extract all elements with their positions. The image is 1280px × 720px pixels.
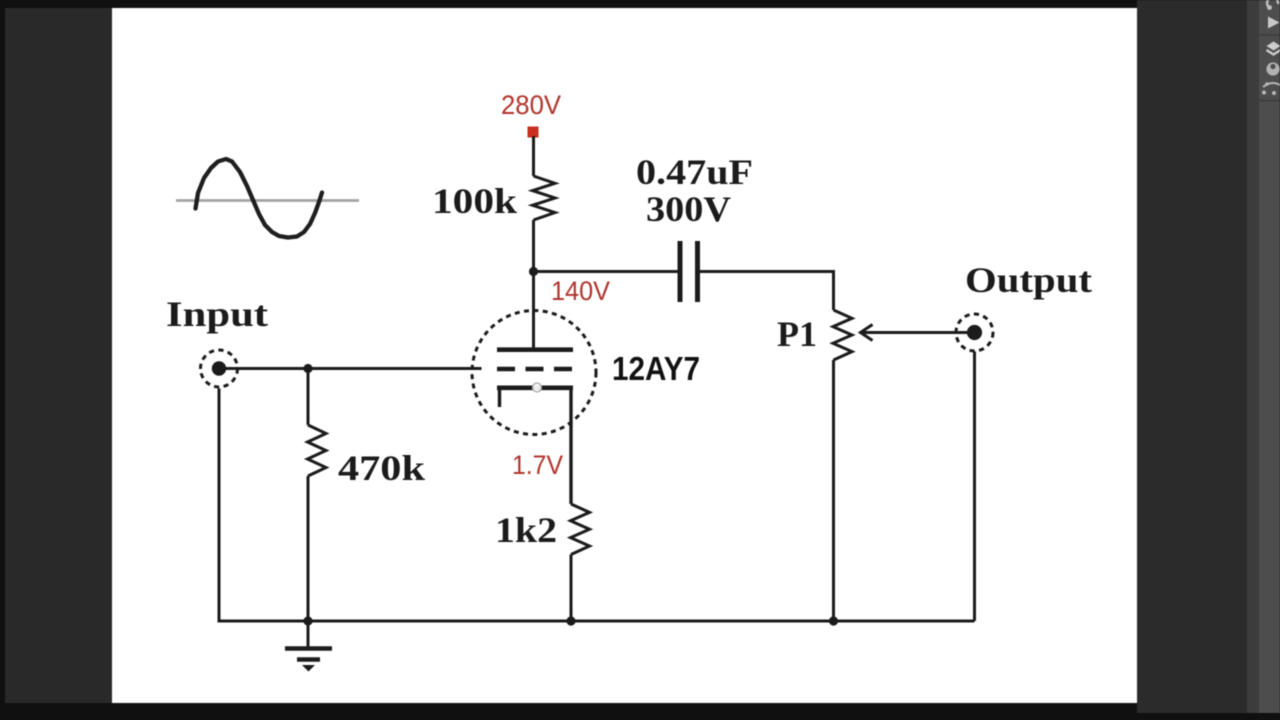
wire J1 to grid (226, 367, 482, 370)
tube V1 cathode lead (569, 388, 572, 504)
toolbar icon mask top (1267, 0, 1278, 10)
tube V1 cathode left leg (498, 388, 501, 407)
sine reference gray line (176, 199, 359, 202)
tube V1 grid dashes (497, 367, 573, 372)
wire P1 bottom to rail (832, 360, 835, 621)
wire node to R2 (307, 369, 310, 426)
cursor ring artifact (533, 383, 542, 392)
Input jack J1 dashed ring (201, 350, 238, 387)
svg-text:12AY7: 12AY7 (612, 350, 700, 387)
toolbar icon play (1268, 17, 1280, 29)
svg-text:1k2: 1k2 (495, 510, 557, 550)
junction node R3/rail (566, 616, 575, 625)
junction node rail/ground (303, 616, 312, 625)
white schematic canvas (112, 8, 1137, 703)
wire C1 to P1 top (700, 272, 834, 311)
potentiometer P1 zigzag (833, 310, 852, 360)
junction node plate (529, 267, 538, 276)
left app panel (5, 8, 112, 703)
toolbar icon sphere (1266, 62, 1279, 75)
resistor R3 1k2 zigzag (571, 504, 590, 555)
svg-text:280V: 280V (501, 90, 561, 120)
tube V1 plate bar (497, 347, 573, 352)
resistor R1 100k zigzag (533, 176, 556, 220)
toolbar separator 1 (1259, 34, 1280, 36)
svg-text:Output: Output (965, 260, 1092, 300)
right strip dark (1247, 0, 1259, 713)
toolbar icon bezier (1262, 82, 1280, 95)
ground bar 2 (297, 657, 320, 661)
ground rail bottom (219, 389, 975, 622)
capacitor C1 right plate (695, 241, 700, 302)
svg-text:0.47uF: 0.47uF (636, 152, 753, 192)
wiper arrow wire (861, 331, 967, 334)
Output jack J2 dashed ring (956, 314, 993, 351)
Input jack J1 center pin (212, 361, 226, 375)
wire R1 to plate node (532, 220, 535, 271)
ground stem (307, 621, 310, 648)
sine wave squiggle (196, 159, 323, 238)
svg-text:300V: 300V (646, 189, 731, 229)
tube V1 cathode bar (497, 385, 573, 390)
junction node P1/rail (829, 616, 838, 625)
wire node to C1 (534, 270, 679, 273)
capacitor C1 left plate (678, 241, 683, 302)
junction node grid/R2 (303, 364, 312, 373)
wire node to anode (532, 272, 535, 350)
wire J2 down to rail (973, 352, 976, 622)
node B+ red square dot (528, 127, 539, 138)
svg-text:Input: Input (166, 294, 268, 334)
wire R2 to rail (307, 476, 310, 621)
svg-text:470k: 470k (338, 448, 425, 488)
svg-text:140V: 140V (551, 276, 610, 306)
toolbar separator 2 (1259, 100, 1280, 102)
svg-text:1.7V: 1.7V (512, 450, 563, 480)
ground triangle (302, 665, 315, 672)
right toolbar (1259, 0, 1280, 713)
toolbar icon layers (1267, 42, 1280, 55)
tube V1 envelope dashed circle (472, 311, 596, 435)
wiper arrowhead (861, 325, 873, 341)
ground bar 1 (285, 646, 332, 650)
resistor R2 470k zigzag (308, 425, 327, 476)
wire B+ to R1 (532, 136, 535, 176)
wire R3 to rail (570, 555, 573, 622)
Output jack J2 center pin (967, 325, 982, 340)
svg-text:P1: P1 (777, 314, 817, 354)
svg-text:100k: 100k (432, 181, 517, 221)
right app panel (1137, 0, 1247, 713)
